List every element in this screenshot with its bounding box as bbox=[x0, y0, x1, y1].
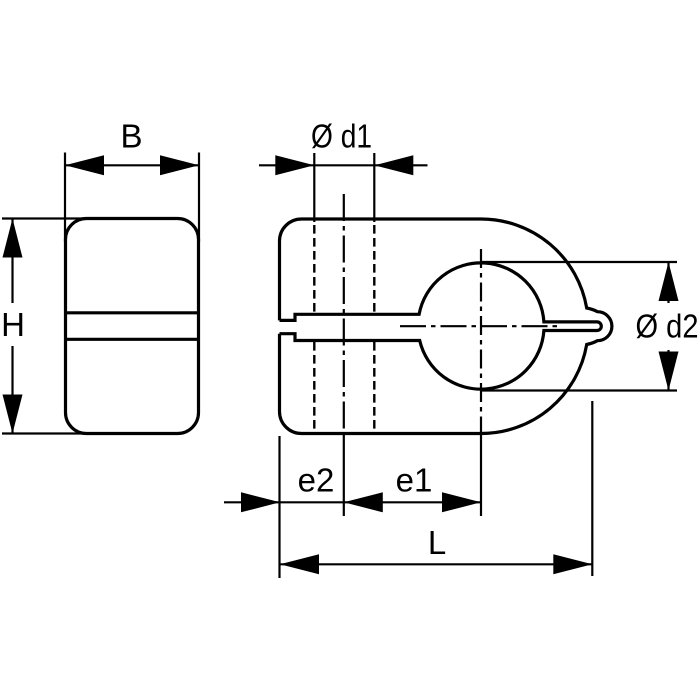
svg-text:B: B bbox=[120, 118, 142, 155]
svg-text:Ø d2: Ø d2 bbox=[636, 308, 699, 345]
svg-text:H: H bbox=[1, 306, 25, 343]
svg-text:Ø d1: Ø d1 bbox=[311, 118, 372, 155]
svg-text:e1: e1 bbox=[396, 462, 433, 499]
svg-text:L: L bbox=[428, 524, 446, 561]
svg-text:e2: e2 bbox=[298, 462, 335, 499]
